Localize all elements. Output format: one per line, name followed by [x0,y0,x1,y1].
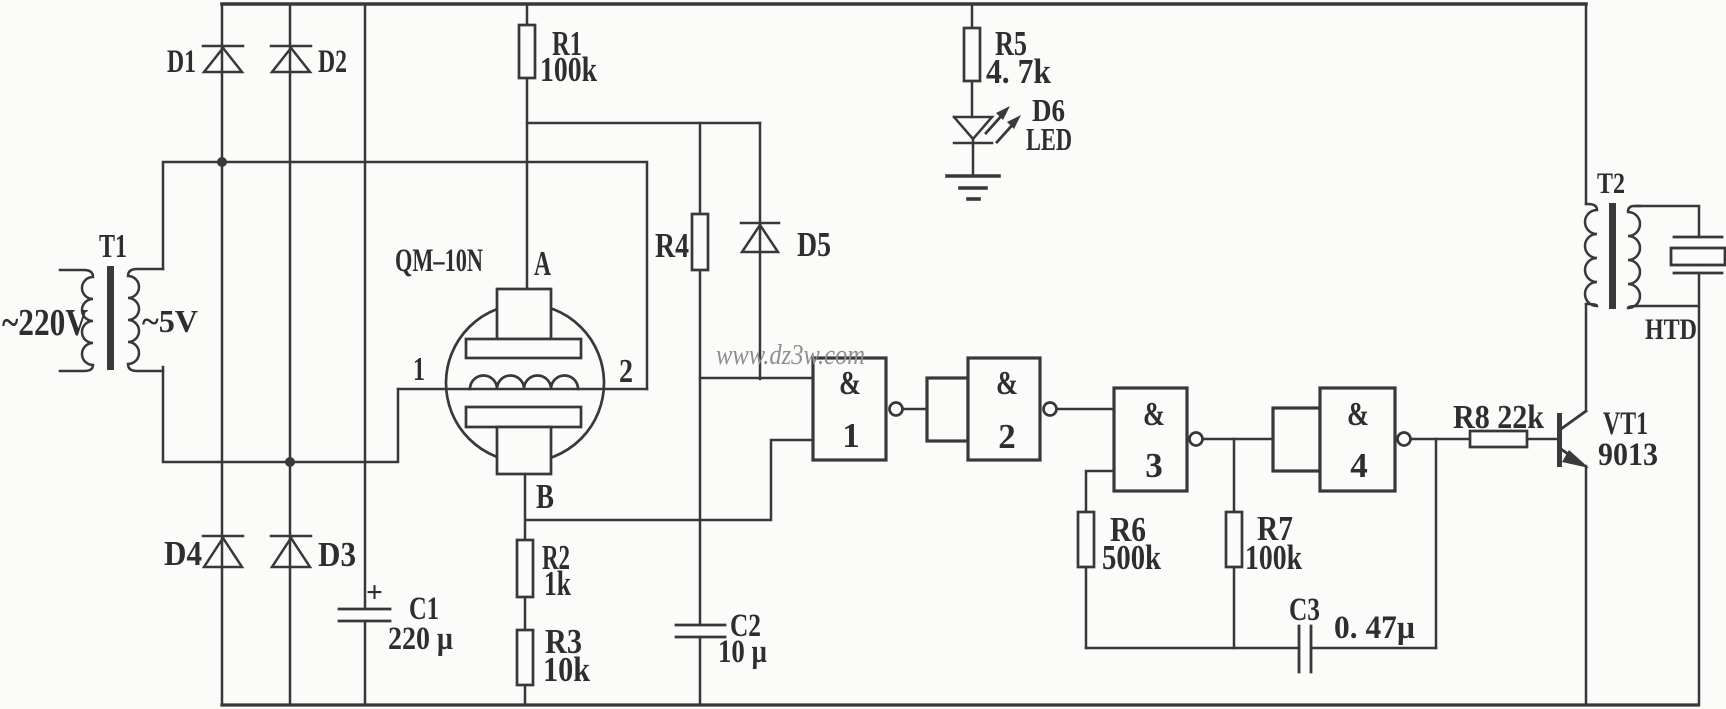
wire VT1 emitter to ground rail [1585,466,1588,705]
wire bottom ground rail [222,703,1698,706]
diode D4 [203,536,243,567]
svg-text:B: B [536,477,554,516]
NAND gate U2 input link [927,378,968,441]
diode D5 [741,123,779,379]
wire R6 bottom [1085,567,1088,648]
wire R7 bottom [1233,567,1236,648]
wire T1 secondary bottom to AC2 [163,367,398,462]
svg-text:C3: C3 [1289,592,1320,628]
svg-text:D4: D4 [164,534,202,573]
gas sensor QM-10N [446,289,604,474]
diode D1 [203,46,243,72]
NAND gate U4 input link [1273,408,1320,471]
svg-text:R4: R4 [655,226,689,265]
wire R1 bus [526,4,529,289]
svg-text:~5V: ~5V [142,303,198,339]
node AC2 junction dot [285,457,295,467]
svg-text:~220V: ~220V [2,302,88,344]
svg-text:100k: 100k [1245,538,1302,577]
wire gate2 out to gate3 in [1057,408,1114,411]
svg-text:D5: D5 [797,225,831,264]
svg-text:&: & [1143,396,1165,433]
svg-text:1k: 1k [544,564,571,603]
svg-text:1: 1 [413,351,425,388]
wire timing bottom [1086,647,1436,650]
transformer T1 [60,266,163,371]
svg-text:500k: 500k [1102,538,1161,577]
wire C3 feedback riser [1435,439,1438,648]
diode D2 [271,46,311,72]
wire R4 bottom to gate1 upper input [700,377,813,380]
svg-text:QM–10N: QM–10N [395,243,483,279]
wire T1 secondary top to AC heater line [163,162,647,389]
svg-text:+: + [366,576,383,609]
wire R2 to R3 [524,597,527,630]
svg-text:10 µ: 10 µ [718,634,767,670]
resistor R4 [692,214,708,270]
svg-text:0. 47µ: 0. 47µ [1334,610,1415,646]
wire top supply rail [222,2,1586,6]
svg-text:T1: T1 [99,228,127,265]
transformer T2 [1585,203,1640,309]
svg-text:&: & [996,365,1018,402]
svg-text:10k: 10k [543,650,590,689]
capacitor C3 [1299,626,1311,672]
wire T2 secondary bottom / right border [1636,273,1699,705]
svg-text:2: 2 [998,417,1016,456]
wire C1 bus [364,4,367,705]
svg-text:100k: 100k [540,50,597,89]
NAND gate U4 [1320,388,1411,491]
wire R8 to VT1 base [1527,438,1557,441]
NAND gate U2 [968,358,1057,460]
wire gate1 out to gate2 in [903,408,927,411]
svg-text:&: & [1347,396,1369,433]
capacitor C2 [676,625,725,637]
svg-text:R8 22k: R8 22k [1453,399,1544,436]
wire gate3 lower input to R6 [1086,471,1114,512]
svg-text:D1: D1 [167,44,196,80]
resistor R5 [964,4,980,117]
wire R4/C2 bus [699,123,702,705]
svg-text:HTD: HTD [1645,313,1697,346]
resistor R2 [517,540,533,597]
svg-text:220 µ: 220 µ [388,621,453,657]
svg-text:&: & [839,365,861,402]
piezo sounder HTD [1671,237,1725,273]
resistor R8 [1470,431,1527,447]
transistor VT1 [1557,411,1589,468]
resistor R6 [1078,512,1094,567]
diode D3 [271,536,311,567]
svg-text:D2: D2 [318,44,347,80]
wire R7 branch [1233,439,1236,512]
svg-text:LED: LED [1026,121,1072,157]
wire VT1 collector riser [1585,4,1588,411]
resistor R3 [517,630,533,685]
svg-text:D3: D3 [318,535,356,574]
NAND gate U3 [1114,388,1203,491]
svg-text:1: 1 [842,416,860,455]
svg-text:2: 2 [619,353,633,390]
resistor R7 [1226,512,1242,567]
wire bus D2-D3 [289,4,292,705]
svg-text:A: A [534,244,551,283]
wire sensor pin1-pin2 heater line [398,388,647,391]
LED D6 [954,106,1021,175]
NAND gate U1 [813,358,903,460]
svg-text:4: 4 [1350,446,1368,485]
wire R3 to ground rail [524,685,527,705]
wire T2 secondary top to HTD [1636,206,1699,237]
svg-text:9013: 9013 [1598,437,1658,473]
wire left bus D1-D4 [221,4,224,705]
svg-text:4. 7k: 4. 7k [986,52,1051,91]
ground [947,176,999,199]
svg-text:T2: T2 [1597,167,1625,200]
node AC1 junction dot [217,157,227,167]
wire R1 to R4/D5 branch [527,122,760,125]
wire gate4 out to R8 [1411,438,1470,441]
svg-text:3: 3 [1145,446,1163,485]
capacitor C1 [339,609,390,621]
wire electrode B path to gate1 input [525,440,813,540]
heater coil of QM-10N [470,376,578,390]
wire gate3 out to gate4 in [1203,438,1273,441]
resistor R1 [519,25,535,78]
